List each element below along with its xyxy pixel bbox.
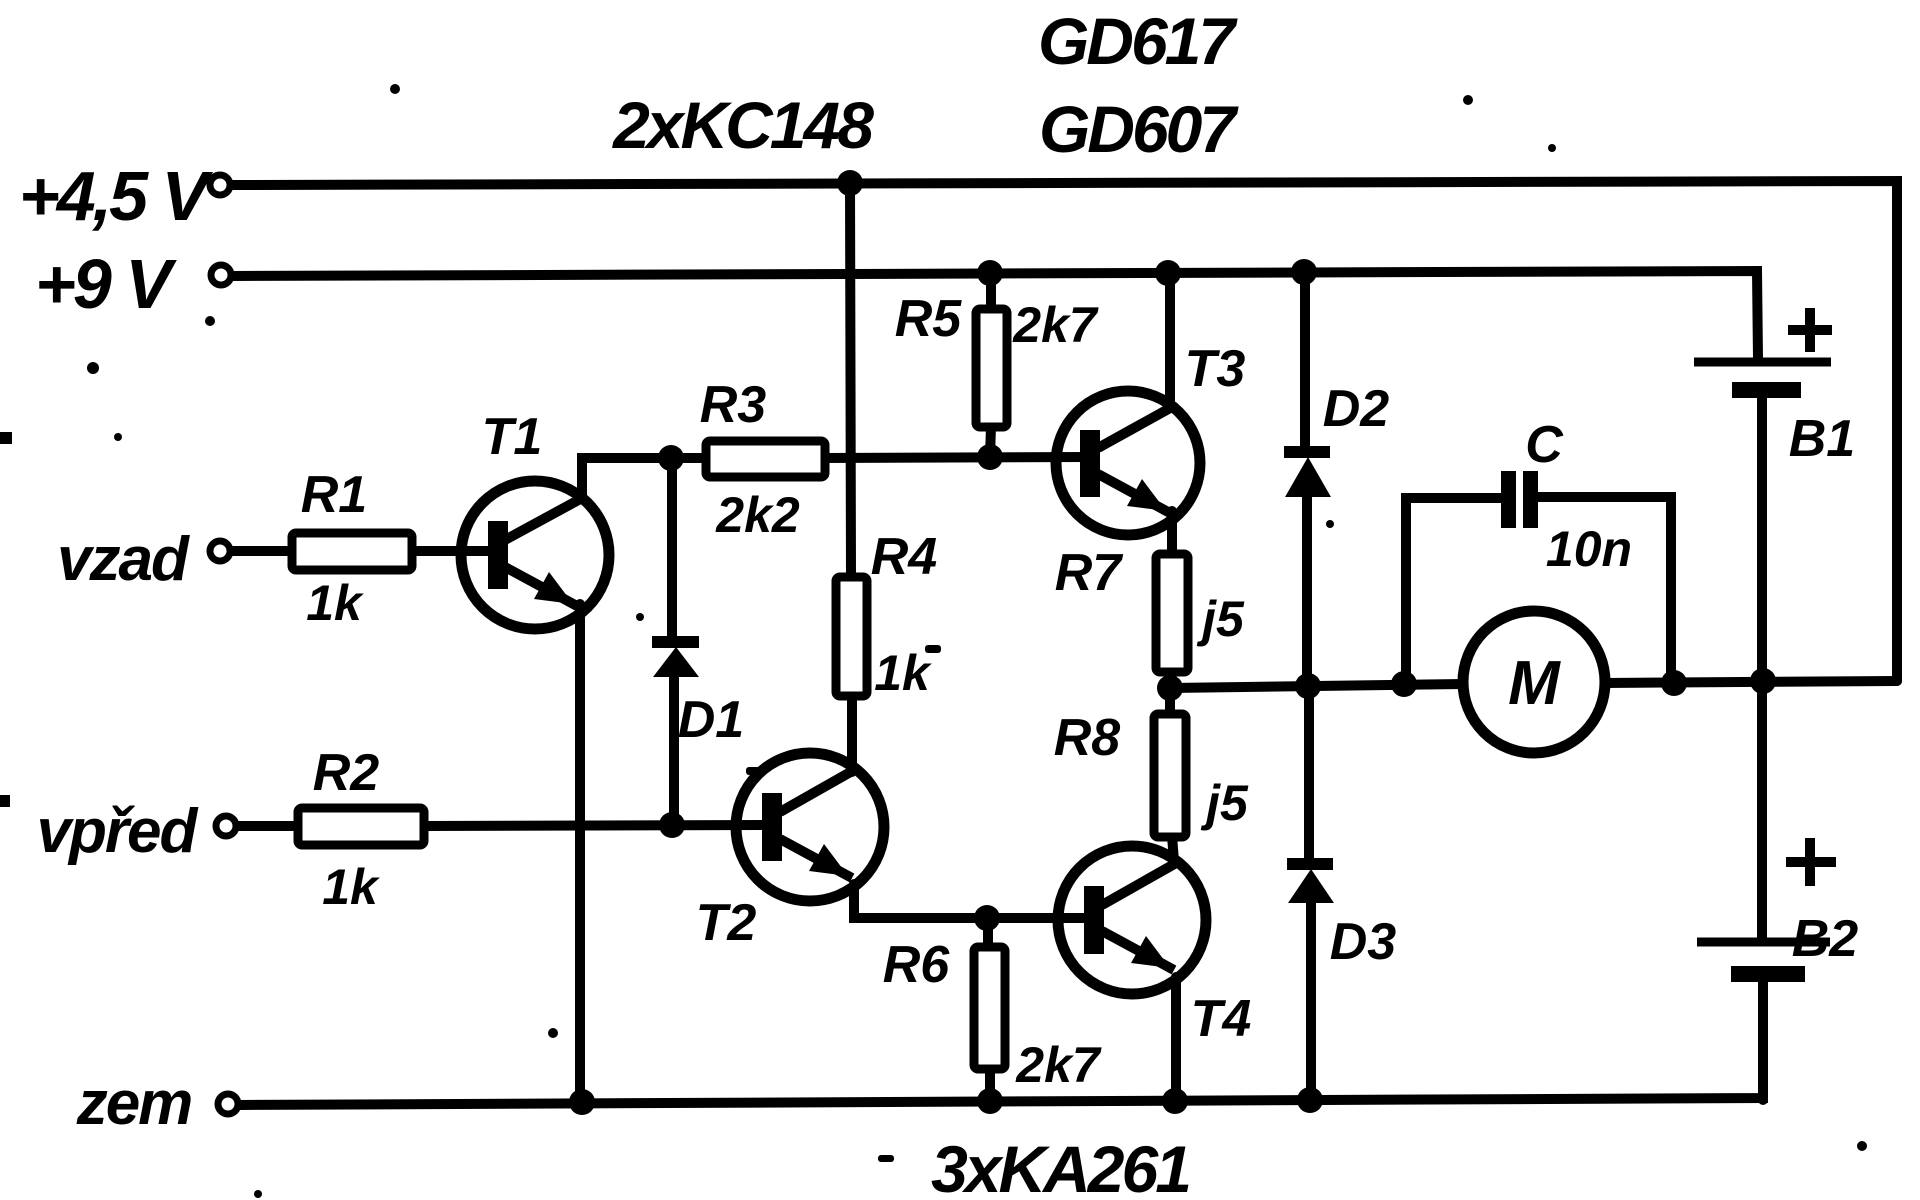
terminal +4,5V: [210, 175, 230, 195]
junction node cap left: [1391, 671, 1417, 697]
junction node cap right: [1661, 670, 1687, 696]
svg-text:R7: R7: [1055, 544, 1124, 602]
svg-text:j5: j5: [1200, 775, 1249, 831]
wire R8 top lead: [1165, 688, 1175, 715]
junction node battery column motor: [1750, 668, 1776, 694]
junction node on +4,5V rail: [837, 170, 863, 196]
svg-text:j5: j5: [1196, 591, 1245, 647]
svg-text:2k7: 2k7: [1012, 297, 1099, 353]
battery B1: [1694, 308, 1832, 398]
wire vertical +4,5V to R4: [850, 184, 851, 577]
svg-text:2xKC148: 2xKC148: [611, 88, 874, 162]
svg-text:T3: T3: [1185, 340, 1246, 398]
svg-text:D2: D2: [1323, 380, 1390, 438]
transistor T2: [736, 753, 884, 901]
svg-text:1k: 1k: [874, 645, 932, 701]
svg-text:vpřed: vpřed: [37, 797, 199, 866]
junction node D1 bottom: [659, 812, 685, 838]
wire D3 top lead: [1304, 687, 1314, 858]
svg-text:GD617: GD617: [1038, 4, 1238, 78]
wire R4 bottom to T2 collector: [847, 695, 857, 772]
svg-text:R5: R5: [895, 290, 963, 348]
wire D1 top lead: [667, 458, 677, 640]
wire T4 emitter to ground rail: [1171, 977, 1181, 1101]
wire B2 bottom lead: [1758, 982, 1768, 1100]
wire +4,5V rail top: [232, 181, 1897, 681]
resistor R1: [292, 533, 412, 570]
wire D2 to motor node: [1302, 496, 1312, 687]
wire capacitor bracket right: [1536, 497, 1671, 683]
svg-text:R8: R8: [1054, 709, 1121, 767]
svg-text:R2: R2: [313, 744, 380, 802]
transistor T1: [461, 481, 609, 629]
wire R6 top lead: [983, 918, 993, 948]
capacitor C plates: [1501, 471, 1538, 528]
svg-text:B1: B1: [1789, 410, 1855, 468]
wire D3 bottom lead: [1306, 901, 1316, 1100]
wire T1 collector up and right to node A: [582, 458, 708, 498]
diode D2: [1284, 446, 1331, 497]
junction node R5 bottom: [977, 444, 1003, 470]
wire motor right to right edge: [1604, 681, 1897, 683]
svg-text:+4,5 V: +4,5 V: [19, 157, 214, 235]
svg-text:2k2: 2k2: [715, 487, 800, 543]
wire R1 to T1 base: [412, 546, 492, 556]
junction node T3 collector: [1155, 260, 1181, 286]
transistor T4: [1058, 846, 1206, 994]
junction node R6 ground: [977, 1088, 1003, 1114]
battery B2: [1697, 838, 1836, 982]
resistor R5: [976, 309, 1007, 427]
wire R2 to T2 base: [424, 825, 768, 826]
terminal zem: [218, 1094, 238, 1114]
svg-text:GD607: GD607: [1039, 92, 1239, 166]
junction node R5 top: [977, 260, 1003, 286]
wire ground rail zem: [240, 1092, 1763, 1105]
resistor R3: [706, 441, 825, 477]
svg-text:zem: zem: [76, 1069, 192, 1138]
junction node R6 top: [974, 905, 1000, 931]
wire R8 bottom to T4 collector: [1172, 836, 1174, 861]
wire T2 emitter to T4 base: [854, 884, 1092, 918]
terminal +9V: [211, 265, 231, 285]
wire R3 right to T3 base: [823, 457, 1090, 458]
wire R5 bottom lead: [990, 426, 991, 457]
terminal vzad: [210, 541, 230, 561]
svg-text:3xKA261: 3xKA261: [931, 1132, 1189, 1200]
svg-text:T1: T1: [482, 408, 543, 466]
junction node R7 R8: [1157, 675, 1183, 701]
terminal vpred: [216, 816, 236, 836]
svg-text:R1: R1: [301, 466, 367, 524]
wire middle node to motor: [1170, 684, 1464, 688]
wire vzad input to R1: [231, 546, 292, 556]
wire R6 bottom lead: [985, 1068, 995, 1101]
resistor R4: [836, 577, 867, 696]
wire R5 top lead: [986, 273, 996, 310]
transistor T3: [1056, 391, 1200, 535]
junction node D2 D3 motor: [1295, 673, 1321, 699]
svg-text:C: C: [1525, 416, 1564, 474]
junction node T1 emitter ground: [569, 1089, 595, 1115]
svg-text:R3: R3: [700, 376, 767, 434]
svg-text:+9 V: +9 V: [35, 245, 177, 323]
svg-text:B2: B2: [1792, 910, 1859, 968]
svg-text:T4: T4: [1191, 990, 1252, 1048]
junction node A R3 left: [658, 445, 684, 471]
resistor R8: [1154, 714, 1186, 837]
diode D1: [652, 636, 699, 677]
wire T3 collector to +9V rail: [1165, 274, 1175, 408]
junction node D3 ground: [1297, 1087, 1323, 1113]
wire vpred input to R2: [237, 821, 298, 831]
wire B1 bottom lead down through motor node to B2: [1757, 398, 1767, 938]
wire D1 bottom lead: [669, 676, 679, 825]
diode D3: [1287, 858, 1334, 903]
junction node D2 top: [1291, 259, 1317, 285]
svg-text:1k: 1k: [306, 575, 364, 631]
wire T1 emitter down to ground rail: [575, 604, 585, 1102]
wire D2 column from +9V rail: [1300, 273, 1310, 449]
wire +9V rail: [233, 271, 1758, 359]
svg-text:D3: D3: [1330, 913, 1397, 971]
resistor R2: [298, 808, 424, 845]
svg-text:1k: 1k: [322, 859, 380, 915]
junction node T4 emitter ground: [1162, 1088, 1188, 1114]
wire R7 bottom lead: [1170, 671, 1172, 688]
svg-text:vzad: vzad: [57, 525, 190, 594]
resistor R7: [1156, 554, 1188, 672]
motor M: [1463, 611, 1605, 753]
svg-text:10n: 10n: [1546, 521, 1632, 577]
wire T3 emitter to R7: [1167, 511, 1177, 555]
svg-text:R4: R4: [871, 528, 938, 586]
svg-text:M: M: [1508, 649, 1561, 718]
svg-text:2k7: 2k7: [1015, 1037, 1102, 1093]
svg-text:T2: T2: [696, 894, 757, 952]
resistor R6: [974, 947, 1005, 1069]
svg-text:D1: D1: [678, 691, 744, 749]
svg-text:R6: R6: [883, 936, 951, 994]
wire capacitor bracket left: [1406, 498, 1503, 684]
